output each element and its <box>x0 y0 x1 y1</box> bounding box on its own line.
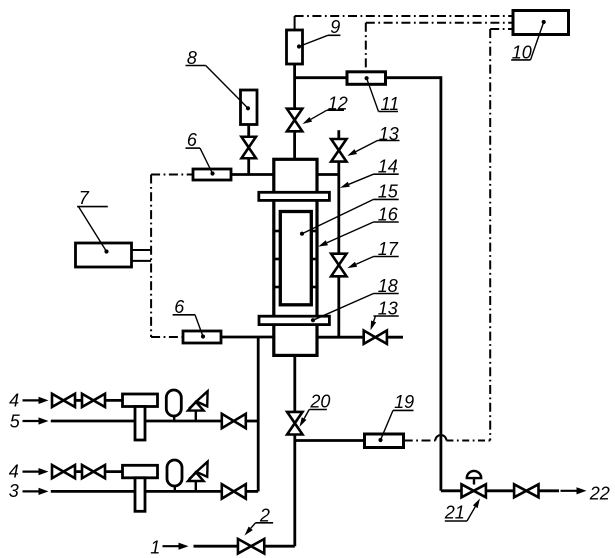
svg-text:1: 1 <box>150 538 160 558</box>
svg-text:7: 7 <box>79 188 90 208</box>
svg-text:21: 21 <box>444 502 465 522</box>
svg-text:9: 9 <box>330 17 340 37</box>
svg-text:4: 4 <box>9 461 19 481</box>
svg-text:4: 4 <box>9 390 19 410</box>
svg-text:3: 3 <box>9 481 19 501</box>
svg-text:22: 22 <box>589 483 610 503</box>
svg-text:5: 5 <box>10 412 21 432</box>
svg-text:19: 19 <box>394 392 414 412</box>
svg-text:6: 6 <box>187 130 198 150</box>
svg-text:20: 20 <box>309 392 330 412</box>
